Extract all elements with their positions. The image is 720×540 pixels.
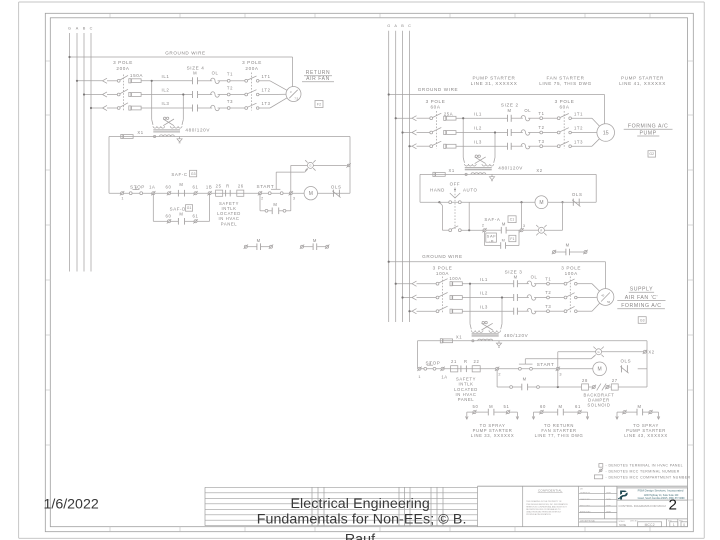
svg-text:3 POLE: 3 POLE bbox=[561, 266, 581, 271]
svg-text:OLS: OLS bbox=[572, 192, 583, 197]
svg-text:M: M bbox=[507, 108, 511, 113]
svg-text:C: C bbox=[90, 27, 93, 31]
svg-text:FORMING A/C: FORMING A/C bbox=[628, 124, 668, 130]
svg-text:IL2: IL2 bbox=[474, 126, 482, 131]
svg-text:M: M bbox=[637, 404, 641, 409]
svg-text:DWG NO.: DWG NO. bbox=[630, 521, 639, 523]
svg-text:0: 0 bbox=[683, 523, 685, 527]
svg-text:X1: X1 bbox=[137, 130, 143, 135]
svg-text:OL: OL bbox=[212, 71, 219, 76]
svg-text:FAN STARTER: FAN STARTER bbox=[546, 76, 584, 81]
svg-text:- DENOTES TERMINAL IN HVAC PAN: - DENOTES TERMINAL IN HVAC PANEL bbox=[606, 464, 683, 468]
svg-text:15: 15 bbox=[603, 131, 609, 137]
svg-text:61: 61 bbox=[575, 404, 581, 409]
svg-text:PROPER AUTHORIZATION.: PROPER AUTHORIZATION. bbox=[526, 513, 551, 516]
svg-text:60: 60 bbox=[540, 404, 546, 409]
svg-text:26: 26 bbox=[238, 184, 244, 189]
svg-text:25A: 25A bbox=[444, 111, 453, 116]
svg-text:1A: 1A bbox=[149, 184, 155, 189]
svg-text:IL2: IL2 bbox=[480, 291, 488, 296]
svg-text:UNAUTHORIZED PERSONS WITHOUT: UNAUTHORIZED PERSONS WITHOUT bbox=[526, 511, 562, 514]
svg-text:T2: T2 bbox=[538, 125, 544, 130]
svg-text:T3: T3 bbox=[227, 99, 233, 104]
svg-text:IL1: IL1 bbox=[480, 277, 488, 282]
svg-text:AIR FAN 'C': AIR FAN 'C' bbox=[625, 295, 658, 301]
svg-text:M: M bbox=[598, 367, 602, 373]
svg-text:M: M bbox=[558, 404, 562, 409]
svg-text:LINE 41, XXXXXX: LINE 41, XXXXXX bbox=[619, 81, 666, 86]
svg-text:T3: T3 bbox=[545, 304, 551, 309]
svg-text:1/6/2022: 1/6/2022 bbox=[44, 497, 99, 513]
svg-text:SAF-A: SAF-A bbox=[484, 217, 500, 222]
svg-text:27: 27 bbox=[612, 378, 618, 383]
svg-text:MCC2: MCC2 bbox=[645, 523, 655, 527]
svg-text:2: 2 bbox=[498, 373, 501, 377]
svg-text:LINE 77, THIS DWG: LINE 77, THIS DWG bbox=[535, 433, 584, 438]
svg-text:1T1: 1T1 bbox=[574, 111, 583, 116]
svg-text:START: START bbox=[537, 362, 555, 367]
svg-text:M: M bbox=[273, 202, 277, 207]
svg-text:M: M bbox=[514, 275, 518, 280]
svg-text:21: 21 bbox=[451, 359, 457, 364]
svg-text:Rauf: Rauf bbox=[345, 531, 375, 540]
svg-text:M: M bbox=[193, 71, 197, 76]
svg-text:50: 50 bbox=[473, 404, 479, 409]
svg-text:OL: OL bbox=[524, 108, 531, 113]
svg-text:T1: T1 bbox=[545, 276, 551, 281]
svg-text:- DENOTES MCC COMPARTMENT NUMB: - DENOTES MCC COMPARTMENT NUMBER bbox=[606, 476, 691, 480]
svg-text:480/120V: 480/120V bbox=[498, 166, 523, 171]
svg-text:60A: 60A bbox=[430, 105, 440, 110]
svg-text:RETURN: RETURN bbox=[306, 70, 330, 76]
svg-text:22: 22 bbox=[474, 359, 480, 364]
svg-text:M: M bbox=[523, 377, 527, 382]
svg-text:DATE: DATE bbox=[606, 504, 612, 507]
svg-text:CHECK BY: CHECK BY bbox=[580, 499, 590, 501]
svg-text:480/120V: 480/120V bbox=[504, 333, 529, 338]
svg-text:28: 28 bbox=[582, 378, 588, 383]
svg-text:7.5: 7.5 bbox=[294, 97, 298, 101]
svg-text:LINE 31, XXXXXX: LINE 31, XXXXXX bbox=[471, 81, 518, 86]
svg-text:DATE: DATE bbox=[606, 511, 612, 514]
svg-text:SIZE 2: SIZE 2 bbox=[501, 103, 519, 108]
svg-text:3: 3 bbox=[293, 197, 296, 201]
svg-text:G1: G1 bbox=[187, 206, 192, 210]
svg-text:PSM DESIGN SERVICES, INC. INFO: PSM DESIGN SERVICES, INC. INFORMATION bbox=[526, 503, 568, 506]
svg-text:G: G bbox=[309, 164, 311, 168]
svg-text:IL3: IL3 bbox=[162, 101, 170, 106]
svg-text:IL1: IL1 bbox=[474, 111, 482, 116]
svg-text:R: R bbox=[464, 359, 468, 364]
svg-text:PUMP STARTER: PUMP STARTER bbox=[621, 76, 664, 81]
svg-text:NONE: NONE bbox=[619, 524, 627, 527]
svg-text:1B: 1B bbox=[206, 184, 212, 189]
svg-text:START: START bbox=[257, 184, 275, 189]
svg-text:M: M bbox=[179, 182, 183, 187]
svg-text:2: 2 bbox=[261, 197, 264, 201]
svg-text:56: 56 bbox=[607, 300, 610, 304]
svg-text:CONFIDENTIAL: CONFIDENTIAL bbox=[538, 489, 563, 493]
svg-text:60: 60 bbox=[166, 213, 172, 218]
svg-text:3: 3 bbox=[523, 224, 526, 228]
svg-text:61: 61 bbox=[193, 213, 199, 218]
svg-text:THIS DRAWING IS THE PROPERTY O: THIS DRAWING IS THE PROPERTY OF bbox=[526, 500, 562, 503]
svg-text:B: B bbox=[83, 27, 86, 31]
svg-text:SCALE: SCALE bbox=[619, 520, 626, 523]
svg-text:B: B bbox=[401, 24, 404, 28]
svg-text:LINE 33, XXXXXX: LINE 33, XXXXXX bbox=[471, 433, 515, 438]
svg-text:BE REPRODUCED OR REVEALED TO: BE REPRODUCED OR REVEALED TO bbox=[526, 508, 561, 511]
svg-text:M: M bbox=[309, 191, 313, 197]
svg-text:GROUND WIRE: GROUND WIRE bbox=[418, 87, 459, 92]
svg-text:F2: F2 bbox=[317, 102, 321, 106]
svg-text:M: M bbox=[539, 200, 543, 206]
svg-text:40: 40 bbox=[601, 293, 604, 297]
svg-text:1: 1 bbox=[418, 375, 421, 379]
svg-text:AUTO: AUTO bbox=[463, 188, 478, 193]
svg-text:G3: G3 bbox=[191, 172, 196, 176]
svg-text:M: M bbox=[489, 404, 493, 409]
svg-text:M: M bbox=[502, 239, 506, 243]
svg-text:200A: 200A bbox=[245, 66, 259, 71]
svg-text:25: 25 bbox=[216, 184, 222, 189]
svg-text:IL3: IL3 bbox=[474, 139, 482, 144]
svg-text:Electrical Engineering: Electrical Engineering bbox=[290, 496, 429, 512]
svg-text:F1: F1 bbox=[510, 237, 514, 241]
svg-text:1T3: 1T3 bbox=[261, 101, 270, 106]
svg-text:R: R bbox=[226, 184, 230, 189]
svg-text:Grand, South Carolina 29615, (: Grand, South Carolina 29615, (864) 877-6… bbox=[638, 497, 686, 500]
svg-text:DATE: DATE bbox=[606, 498, 612, 501]
svg-text:IL2: IL2 bbox=[162, 88, 170, 93]
svg-text:1: 1 bbox=[673, 523, 675, 527]
svg-text:PANEL: PANEL bbox=[221, 221, 238, 226]
svg-text:3 POLE: 3 POLE bbox=[426, 99, 446, 104]
svg-text:61: 61 bbox=[193, 184, 199, 189]
svg-text:3: 3 bbox=[559, 373, 562, 377]
svg-text:LINE 75, THIS DWG: LINE 75, THIS DWG bbox=[539, 81, 592, 86]
svg-text:X1: X1 bbox=[456, 335, 462, 340]
svg-text:- DENOTES MCC TERMINAL NUMBER: - DENOTES MCC TERMINAL NUMBER bbox=[606, 470, 680, 474]
svg-text:1T2: 1T2 bbox=[261, 88, 270, 93]
svg-text:M: M bbox=[313, 238, 317, 243]
svg-text:PANEL: PANEL bbox=[458, 397, 475, 402]
svg-text:DR: DR bbox=[580, 488, 583, 490]
svg-text:T3: T3 bbox=[538, 139, 544, 144]
svg-text:G: G bbox=[68, 27, 71, 31]
svg-text:2: 2 bbox=[482, 224, 485, 228]
svg-text:SIZE 3: SIZE 3 bbox=[505, 269, 523, 274]
svg-text:100A: 100A bbox=[565, 271, 579, 276]
svg-text:G2: G2 bbox=[649, 152, 654, 156]
svg-text:51: 51 bbox=[504, 404, 510, 409]
svg-text:T1: T1 bbox=[227, 72, 233, 77]
svg-text:2: 2 bbox=[668, 497, 676, 514]
svg-text:PUMP STARTER: PUMP STARTER bbox=[473, 76, 516, 81]
svg-text:1T3: 1T3 bbox=[574, 139, 583, 144]
svg-text:3 POLE: 3 POLE bbox=[433, 266, 453, 271]
svg-text:1A: 1A bbox=[441, 374, 447, 379]
svg-text:X1: X1 bbox=[449, 168, 455, 173]
svg-text:STOP: STOP bbox=[130, 184, 145, 189]
svg-text:SOLNOID: SOLNOID bbox=[587, 403, 610, 408]
svg-text:1: 1 bbox=[121, 196, 124, 200]
svg-text:G: G bbox=[598, 350, 600, 354]
svg-text:PUMP: PUMP bbox=[640, 130, 657, 136]
svg-text:3 POLE: 3 POLE bbox=[113, 60, 133, 65]
svg-text:IL1: IL1 bbox=[162, 74, 170, 79]
svg-text:3 POLE: 3 POLE bbox=[555, 99, 575, 104]
svg-text:M: M bbox=[179, 211, 183, 216]
svg-text:OFF: OFF bbox=[450, 182, 461, 187]
svg-text:SAF-C: SAF-C bbox=[171, 172, 187, 177]
svg-text:Fundamentals for Non-EEs; © B.: Fundamentals for Non-EEs; © B. bbox=[257, 512, 467, 528]
svg-text:M: M bbox=[257, 238, 261, 243]
svg-text:HAND: HAND bbox=[430, 188, 445, 193]
svg-text:M: M bbox=[566, 242, 570, 247]
svg-text:A: A bbox=[394, 24, 397, 28]
svg-text:PSM Design Services, Incorpora: PSM Design Services, Incorporated bbox=[638, 489, 684, 493]
svg-text:SUPPLY: SUPPLY bbox=[630, 287, 653, 293]
svg-text:C: C bbox=[408, 24, 411, 28]
svg-text:R: R bbox=[540, 228, 542, 232]
svg-text:AIR FAN: AIR FAN bbox=[306, 76, 330, 82]
svg-text:FORMING A/C: FORMING A/C bbox=[621, 303, 661, 309]
svg-text:X2: X2 bbox=[536, 168, 542, 173]
svg-text:M: M bbox=[502, 222, 506, 227]
svg-text:SIZE 4: SIZE 4 bbox=[187, 65, 205, 70]
svg-text:T2: T2 bbox=[227, 85, 233, 90]
svg-text:X2: X2 bbox=[648, 350, 654, 355]
svg-text:G: G bbox=[387, 24, 390, 28]
svg-text:480/120V: 480/120V bbox=[185, 128, 210, 133]
svg-text:SAF-D: SAF-D bbox=[170, 207, 186, 212]
svg-text:100A: 100A bbox=[436, 271, 450, 276]
svg-text:OL: OL bbox=[531, 275, 538, 280]
svg-text:IL3: IL3 bbox=[480, 304, 488, 309]
svg-text:APPROVED: APPROVED bbox=[580, 511, 591, 514]
svg-text:OLS: OLS bbox=[620, 359, 631, 364]
svg-text:DATE: DATE bbox=[606, 492, 612, 495]
svg-text:100A: 100A bbox=[449, 276, 461, 281]
svg-text:60A: 60A bbox=[559, 105, 569, 110]
svg-text:A: A bbox=[76, 27, 79, 31]
svg-text:DRAWN BY: DRAWN BY bbox=[580, 492, 591, 495]
svg-text:GROUND WIRE: GROUND WIRE bbox=[422, 254, 463, 259]
svg-text:200A: 200A bbox=[116, 66, 130, 71]
svg-text:LINE 43, XXXXXX: LINE 43, XXXXXX bbox=[624, 433, 668, 438]
svg-text:PROJ ENG: PROJ ENG bbox=[580, 505, 590, 507]
svg-text:1T2: 1T2 bbox=[574, 126, 583, 131]
svg-text:T1: T1 bbox=[538, 111, 544, 116]
svg-text:3 POLE: 3 POLE bbox=[242, 60, 262, 65]
svg-text:150A: 150A bbox=[130, 73, 144, 78]
svg-text:C1: C1 bbox=[510, 218, 515, 222]
svg-text:CONTROL DIAGRAMS FOR MCC2: CONTROL DIAGRAMS FOR MCC2 bbox=[619, 504, 667, 508]
svg-text:G3: G3 bbox=[640, 318, 645, 322]
svg-text:T2: T2 bbox=[545, 290, 551, 295]
svg-text:60: 60 bbox=[166, 184, 172, 189]
svg-text:OLS: OLS bbox=[331, 184, 342, 189]
svg-text:HEREON IS CONFIDENTIAL AND MUS: HEREON IS CONFIDENTIAL AND MUST NOT bbox=[526, 505, 567, 508]
svg-text:GROUND WIRE: GROUND WIRE bbox=[165, 51, 206, 56]
svg-text:1T1: 1T1 bbox=[261, 74, 270, 79]
